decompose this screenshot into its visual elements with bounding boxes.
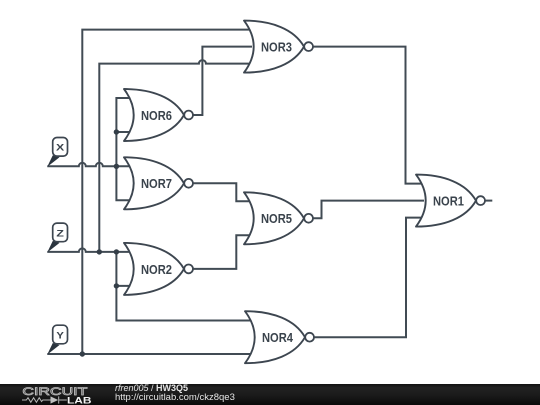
- wire Z net: flag Z to NOR2 input 1 (hop over Y vertical): [47, 248, 132, 252]
- logo resistor + diode: [22, 396, 67, 403]
- svg-text:X: X: [56, 143, 65, 153]
- svg-text:NOR2: NOR2: [141, 263, 172, 277]
- junction Z wire / Z-tie vertical: [114, 249, 119, 254]
- gate NOR3: [244, 21, 313, 73]
- svg-text:Y: Y: [56, 330, 64, 340]
- flag input X: [47, 138, 67, 167]
- junction X wire / X-tie vertical: [114, 164, 119, 169]
- junction NOR2 input2 tap: [114, 283, 119, 288]
- flag input Y: [47, 325, 67, 354]
- junction NOR6 input2 tap: [114, 129, 119, 134]
- wire Y vertical from Y net up to NOR3 input 1: [82, 30, 252, 354]
- flag input Z: [47, 223, 67, 252]
- footer line 1: [115, 384, 188, 393]
- gate NOR6: [124, 89, 193, 141]
- gate NOR4: [245, 311, 314, 363]
- gate NOR5: [244, 192, 313, 244]
- svg-text:LAB: LAB: [67, 395, 92, 405]
- svg-text:NOR4: NOR4: [262, 331, 293, 345]
- wire X net: flag X to NOR7 input 1 (hops over two verticals): [47, 163, 132, 166]
- footer line 2: [115, 393, 235, 402]
- wire NOR4 output to NOR1 input 3: [314, 218, 424, 338]
- junction Y wire / Y-up vertical: [80, 351, 85, 356]
- svg-text:Z: Z: [56, 228, 64, 238]
- gate NOR7: [124, 157, 193, 209]
- wire NOR3 output to NOR1 input 1: [313, 47, 424, 184]
- svg-text:NOR1: NOR1: [433, 195, 464, 209]
- wire NOR2 output to NOR5 input 2: [193, 235, 252, 269]
- gate NOR2: [124, 243, 193, 295]
- svg-text:NOR5: NOR5: [261, 212, 292, 226]
- wire NOR7 output to NOR5 input 1: [193, 183, 252, 201]
- wire NOR5 output to NOR1 input 2: [313, 201, 424, 219]
- wire Z tie vertical: NOR2 input2 and NOR4 input1: [116, 252, 253, 321]
- gate NOR1: [416, 175, 485, 227]
- junction Z wire / Z-up vertical: [97, 249, 102, 254]
- footer bar: [0, 384, 540, 405]
- wire NOR6 output to NOR3 input 2: [193, 47, 252, 115]
- svg-text:NOR6: NOR6: [141, 109, 172, 123]
- svg-text:NOR3: NOR3: [261, 41, 292, 55]
- wire X tie vertical: NOR6 input1, NOR6 input2, NOR7 input2: [116, 98, 132, 200]
- wire Y net: flag Y to NOR4 input 2: [47, 353, 253, 355]
- wire Z vertical from Z net up to NOR3 input 3 (hops over NOR6 output wire): [99, 60, 252, 252]
- svg-text:NOR7: NOR7: [141, 177, 172, 191]
- wire NOR1 output stub: [485, 200, 493, 202]
